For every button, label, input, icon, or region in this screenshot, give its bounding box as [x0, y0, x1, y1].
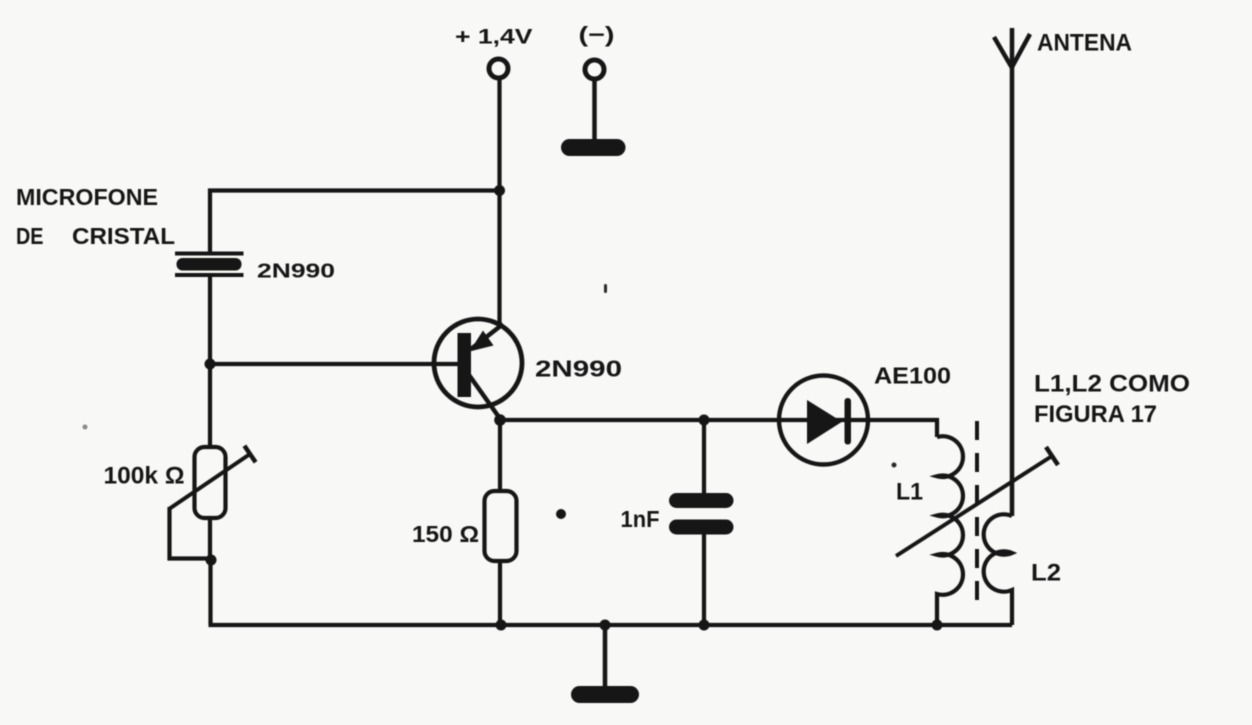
antenna — [994, 28, 1030, 516]
svg-text:ANTENA: ANTENA — [1037, 30, 1132, 57]
ground (bottom) — [571, 686, 639, 703]
node capacitor top — [699, 415, 710, 426]
svg-text:L1: L1 — [896, 479, 923, 506]
svg-text:2N990: 2N990 — [257, 260, 335, 283]
node rail/ground stub — [600, 620, 611, 631]
wire potentiometer bottom — [208, 518, 212, 560]
label MICROFONE DE CRISTAL — [16, 184, 175, 249]
ink speck — [556, 509, 566, 519]
svg-text:2N990: 2N990 — [535, 356, 622, 382]
wire (-) terminal to chassis ground — [592, 80, 597, 142]
capacitor C1 1nF — [669, 493, 734, 535]
svg-text:1nF: 1nF — [621, 506, 660, 532]
inductor L1 — [937, 436, 963, 625]
label L1,L2 COMO FIGURA 17 — [1034, 371, 1190, 429]
svg-text:150 Ω: 150 Ω — [412, 521, 479, 547]
wire collector to resistor — [498, 420, 502, 491]
transformer core (dashed) — [975, 421, 979, 603]
svg-text:MICROFONE: MICROFONE — [16, 184, 158, 210]
ink speck left margin — [83, 425, 88, 430]
wire collector output (to diode and L1) — [500, 420, 937, 437]
wire capacitor top lead — [702, 420, 706, 495]
resistor R2 150 ohm — [485, 491, 517, 561]
svg-text:CRISTAL: CRISTAL — [72, 223, 175, 249]
inductor L2 — [984, 514, 1012, 625]
ink speck near L1 — [892, 463, 897, 468]
node potentiometer bottom — [206, 555, 217, 566]
svg-text:FIGURA 17: FIGURA 17 — [1034, 401, 1157, 428]
microphone MIC1 (crystal microphone) — [175, 254, 244, 276]
node collector junction — [494, 414, 506, 426]
ink speck near supply — [604, 284, 607, 293]
wire top rail to microphone — [210, 191, 500, 253]
node supply junction — [494, 185, 505, 196]
slug tuning arrow through L1/L2 — [896, 447, 1058, 556]
node L1 bottom — [932, 620, 943, 631]
wire microphone to base node — [208, 277, 212, 364]
wire wiper return — [170, 507, 212, 559]
svg-text:+ 1,4V: + 1,4V — [455, 25, 533, 49]
wire base node to potentiometer — [208, 364, 212, 447]
terminal (-) — [585, 60, 604, 79]
diode D1 AE100 — [779, 376, 868, 465]
svg-text:AE100: AE100 — [874, 363, 951, 389]
wire supply vertical (+1,4V to transistor emitter) — [497, 79, 501, 326]
ground (negative terminal bar) — [561, 139, 626, 156]
svg-text:100k Ω: 100k Ω — [104, 463, 185, 490]
terminal +1,4V — [489, 59, 508, 78]
node rail/capacitor — [699, 620, 710, 631]
svg-text:L1,L2 COMO: L1,L2 COMO — [1034, 371, 1190, 398]
svg-text:DE: DE — [16, 223, 44, 249]
wire ground stub — [603, 625, 608, 688]
wire left leg to ground rail — [208, 560, 212, 625]
svg-text:L2: L2 — [1031, 560, 1061, 587]
transistor Q1 2N990 (PNP) — [434, 319, 522, 420]
ground rail — [209, 623, 1013, 627]
node rail/resistor — [496, 620, 507, 631]
svg-text:(−): (−) — [579, 22, 615, 47]
node base junction — [205, 359, 216, 370]
wire resistor to ground rail — [498, 561, 502, 625]
potentiometer R1 100k — [169, 446, 256, 518]
wire capacitor bottom lead — [702, 534, 706, 625]
wire base — [210, 362, 459, 366]
